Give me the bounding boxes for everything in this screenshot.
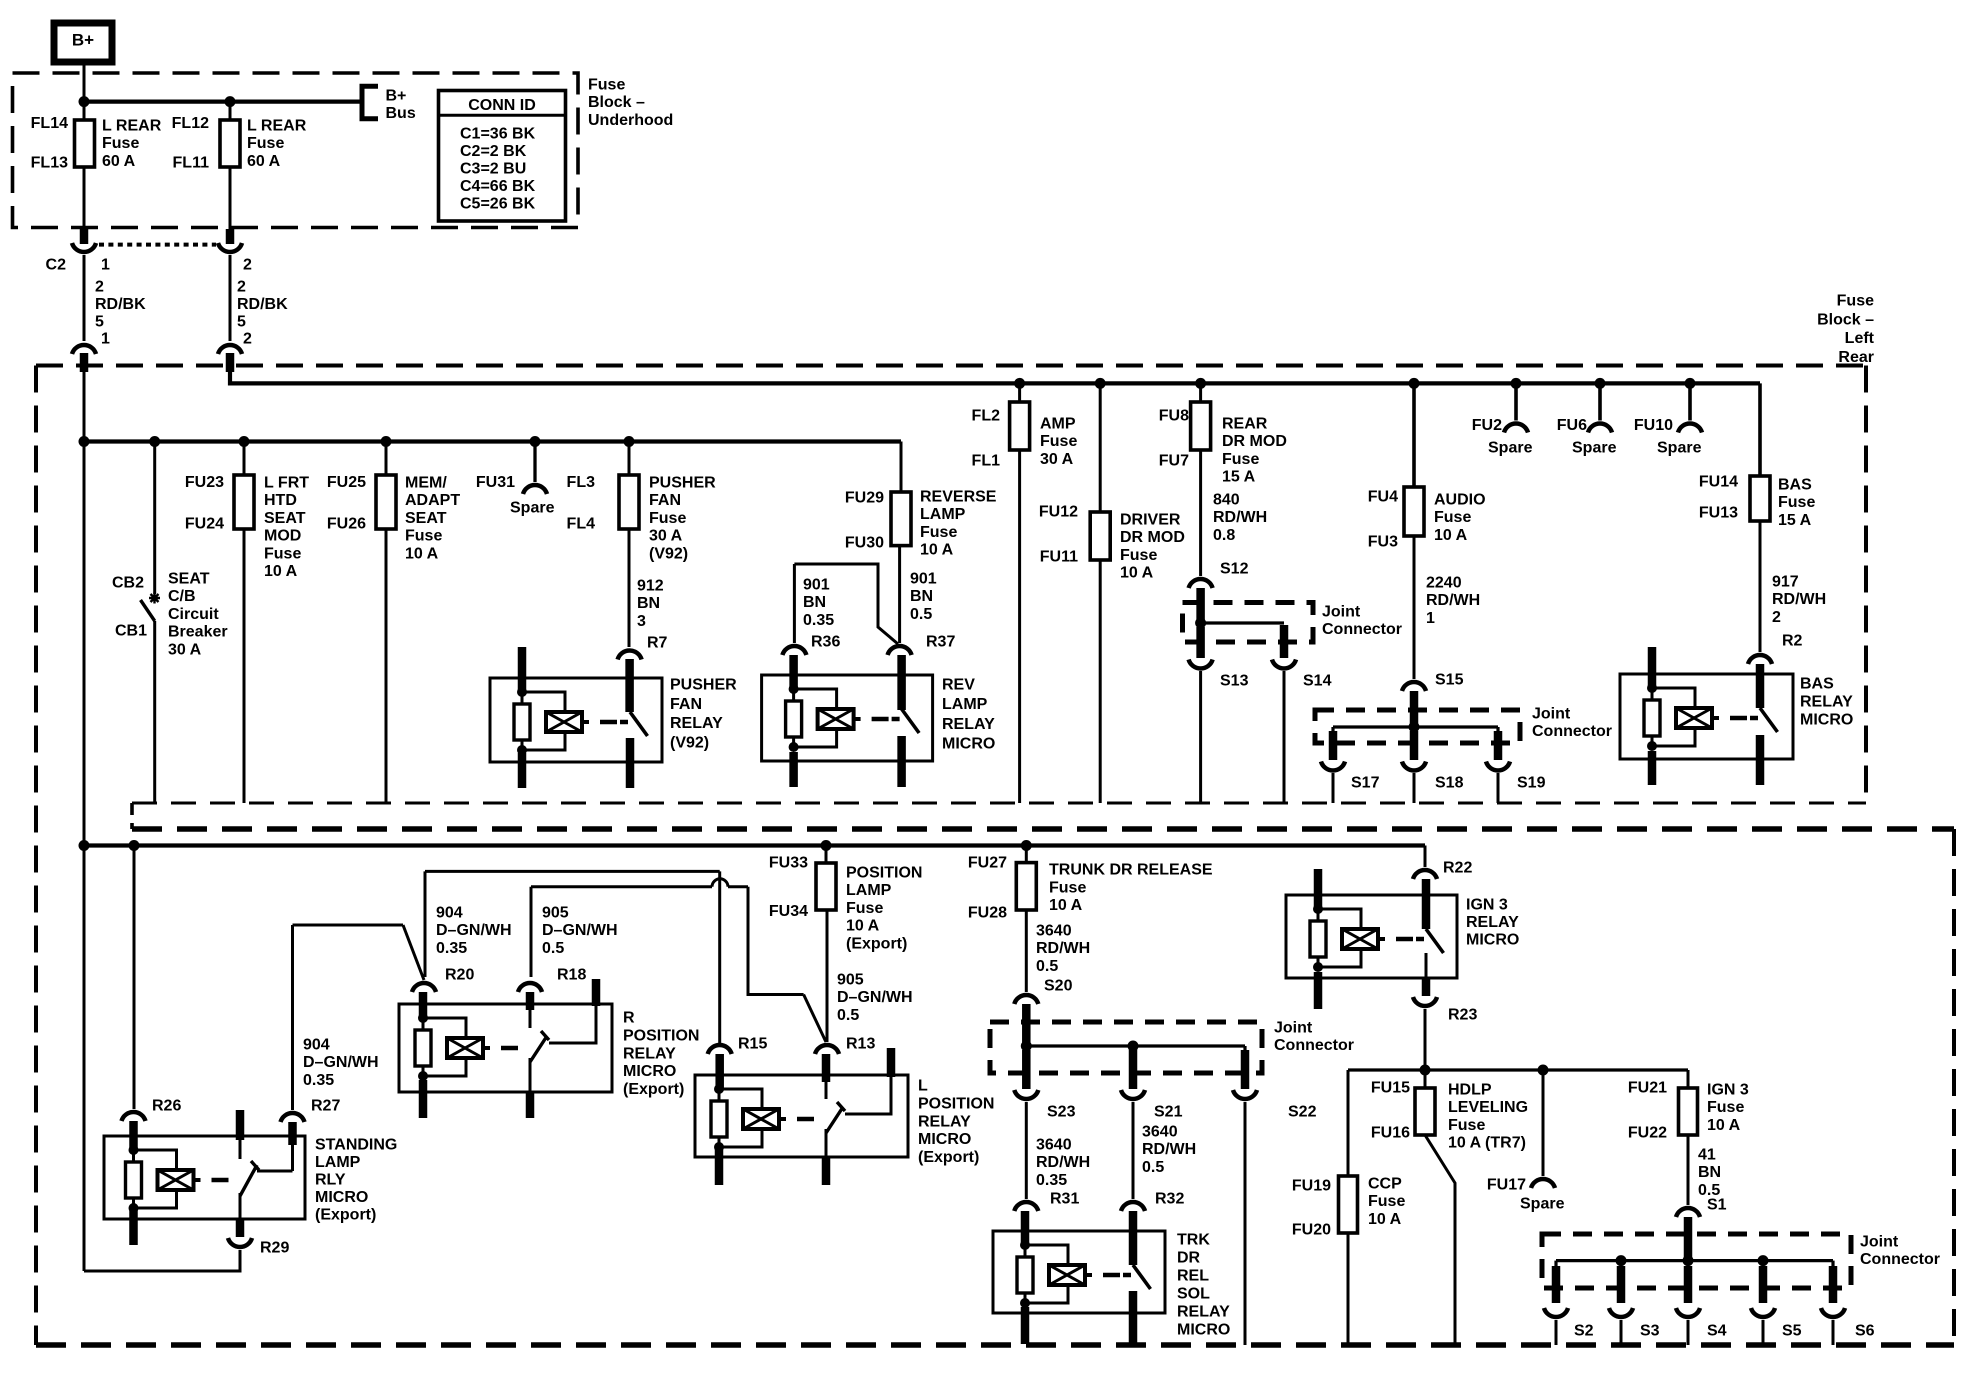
svg-text:R: R — [623, 1010, 635, 1027]
spare terminal FU17 — [1531, 1179, 1555, 1188]
connector S23 — [1014, 1090, 1038, 1099]
wire S6 down — [1832, 1320, 1835, 1345]
svg-text:1: 1 — [101, 331, 110, 348]
svg-text:B+: B+ — [72, 31, 94, 50]
connector R29 — [228, 1238, 252, 1247]
svg-text:3640: 3640 — [1036, 923, 1072, 940]
svg-text:904: 904 — [436, 905, 463, 922]
relay switch TRK DR REL SOL RELAY MICRO — [1123, 1273, 1131, 1278]
svg-text:RD/WH: RD/WH — [1213, 509, 1267, 526]
stub bas switch bottom — [1756, 735, 1765, 785]
spare terminal FU6 — [1588, 424, 1612, 433]
svg-text:RELAY: RELAY — [1177, 1304, 1230, 1321]
stub pusher coil top — [518, 647, 527, 692]
connector S2 — [1544, 1308, 1568, 1317]
svg-text:BAS: BAS — [1800, 676, 1834, 693]
B+ terminal box — [54, 23, 112, 62]
fuse FU8/FU7 REAR DR MOD 15A — [1191, 402, 1211, 450]
svg-text:C2: C2 — [46, 257, 67, 274]
svg-text:C1=36 BK: C1=36 BK — [460, 126, 536, 143]
svg-text:Fuse: Fuse — [1434, 509, 1471, 526]
svg-text:MICRO: MICRO — [1177, 1322, 1230, 1339]
svg-text:S4: S4 — [1707, 1323, 1727, 1340]
stub R POSITION open pin — [592, 979, 601, 1006]
svg-text:FU33: FU33 — [769, 855, 808, 872]
svg-text:10 A: 10 A — [1049, 897, 1083, 914]
svg-text:DR MOD: DR MOD — [1120, 529, 1185, 546]
svg-text:FU25: FU25 — [327, 474, 366, 491]
fuse FU21/FU22 IGN 3 10A — [1679, 1088, 1698, 1135]
svg-text:2: 2 — [243, 331, 252, 348]
svg-text:FAN: FAN — [670, 696, 702, 713]
junction x=1019.6 on upper feed — [1014, 378, 1025, 389]
connector C2 pin2 upper — [218, 243, 242, 252]
svg-text:IGN 3: IGN 3 — [1466, 897, 1508, 914]
svg-text:MICRO: MICRO — [918, 1131, 971, 1148]
connector R37 — [888, 646, 912, 655]
svg-text:Joint: Joint — [1860, 1234, 1899, 1251]
junction S23 in joint connector 3 — [1021, 1041, 1032, 1052]
fuse block underhood dashed border — [13, 73, 579, 228]
stub trk coil bottom — [1021, 1307, 1030, 1344]
svg-text:FU2: FU2 — [1472, 417, 1502, 434]
wire CB1 down — [153, 621, 156, 803]
svg-text:FU10: FU10 — [1634, 417, 1673, 434]
wire 840 RD/WH 0.8 — [1199, 450, 1202, 576]
svg-text:S15: S15 — [1435, 672, 1464, 689]
svg-text:R29: R29 — [260, 1240, 289, 1257]
wire joint connector 1 — [1201, 621, 1284, 624]
connector R2 — [1748, 655, 1772, 664]
stub S4 — [1684, 1266, 1693, 1303]
svg-text:FL12: FL12 — [172, 115, 209, 132]
stub R36 into relay — [789, 655, 798, 690]
stub r-pos coil bottom — [419, 1080, 428, 1118]
svg-text:RLY: RLY — [315, 1172, 346, 1189]
svg-text:FU16: FU16 — [1371, 1125, 1410, 1142]
svg-text:RD/WH: RD/WH — [1772, 591, 1826, 608]
svg-text:R18: R18 — [557, 967, 586, 984]
svg-text:B+: B+ — [386, 88, 407, 105]
svg-text:TRUNK DR RELEASE: TRUNK DR RELEASE — [1049, 862, 1213, 879]
junction x=1516 on upper feed — [1511, 378, 1522, 389]
junction x=84 on lower feed — [79, 436, 90, 447]
fuse FU14/FU13 BAS 15A — [1750, 476, 1770, 521]
svg-text:Spare: Spare — [510, 500, 555, 517]
svg-text:S3: S3 — [1640, 1323, 1660, 1340]
svg-text:R2: R2 — [1782, 633, 1803, 650]
stub R27 into relay — [288, 1122, 297, 1145]
stub S15 into joint connector — [1410, 691, 1419, 727]
wire branch 901 BN 0.35 — [794, 564, 898, 644]
lower feed bus — [84, 843, 1425, 847]
wire 3640 RD/WH 0.5 (R32) — [1132, 1102, 1135, 1199]
wire S18 down — [1413, 773, 1416, 803]
wire S19 down — [1497, 773, 1500, 803]
joint connector box S20/S23/S21/S22 — [990, 1022, 1262, 1073]
svg-text:901: 901 — [803, 577, 830, 594]
wire to fuse FU25 — [385, 442, 388, 476]
svg-text:Fuse: Fuse — [1049, 880, 1086, 897]
connector S4 — [1676, 1308, 1700, 1317]
svg-text:3640: 3640 — [1142, 1124, 1178, 1141]
stub R15 into relay — [715, 1054, 724, 1089]
svg-text:FU15: FU15 — [1371, 1080, 1410, 1097]
svg-text:ADAPT: ADAPT — [405, 492, 460, 509]
relay switch L POSITION (export type) — [825, 1082, 828, 1099]
svg-text:Connector: Connector — [1274, 1037, 1354, 1054]
svg-text:DR MOD: DR MOD — [1222, 433, 1287, 450]
stub bas coil bottom — [1648, 751, 1657, 785]
svg-text:C4=66 BK: C4=66 BK — [460, 178, 536, 195]
feed bus lower — [84, 439, 901, 443]
junction x=1688 in joint connector 4 — [1683, 1255, 1694, 1266]
connector R31 — [1014, 1202, 1038, 1211]
svg-text:2: 2 — [95, 279, 104, 296]
connector R18 — [518, 983, 542, 992]
svg-text:FU11: FU11 — [1040, 549, 1078, 566]
svg-text:FU4: FU4 — [1368, 489, 1398, 506]
wire S17 down — [1332, 773, 1335, 803]
svg-text:10 A: 10 A — [1120, 565, 1154, 582]
svg-text:Bus: Bus — [386, 105, 416, 122]
svg-text:FL3: FL3 — [567, 474, 596, 491]
svg-text:S13: S13 — [1220, 673, 1249, 690]
wire C2 pin2 — [229, 255, 232, 341]
junction HDLP tap — [1420, 1065, 1431, 1076]
svg-text:BN: BN — [637, 595, 660, 612]
connector R13 — [815, 1045, 839, 1054]
stub R13 into relay — [822, 1054, 831, 1082]
relay switch PUSHER FAN RELAY (V92) — [620, 720, 628, 725]
connector R32 — [1121, 1202, 1145, 1211]
svg-text:Connector: Connector — [1860, 1251, 1940, 1268]
svg-text:FL4: FL4 — [567, 516, 596, 533]
svg-text:PUSHER: PUSHER — [649, 475, 716, 492]
svg-text:Fuse: Fuse — [1778, 494, 1815, 511]
svg-text:R32: R32 — [1155, 1191, 1184, 1208]
svg-text:LAMP: LAMP — [846, 882, 892, 899]
svg-text:Fuse: Fuse — [1448, 1117, 1485, 1134]
svg-text:Joint: Joint — [1532, 706, 1571, 723]
relay box TRK DR REL SOL RELAY MICRO — [993, 1231, 1165, 1313]
wire 904 to R27 branch — [293, 924, 404, 927]
wire to R15 — [718, 871, 721, 1043]
wire FU16 down diagonal — [1425, 1135, 1455, 1345]
svg-text:Breaker: Breaker — [168, 624, 228, 641]
wire S13 down — [1199, 671, 1202, 803]
wire left rail to standing lamp loop — [83, 846, 86, 1272]
junction x=1200.6 on upper feed — [1195, 378, 1206, 389]
svg-text:Fuse: Fuse — [588, 77, 625, 94]
svg-text:FL14: FL14 — [31, 115, 68, 132]
wire 905 to R13 branch — [748, 887, 804, 995]
wire to fuse FL2 — [1018, 383, 1021, 402]
svg-text:912: 912 — [637, 578, 664, 595]
svg-text:Fuse: Fuse — [846, 900, 883, 917]
svg-text:905: 905 — [542, 905, 569, 922]
svg-text:RD/WH: RD/WH — [1426, 592, 1480, 609]
svg-text:MOD: MOD — [264, 528, 301, 545]
wire FL13 down — [83, 167, 86, 229]
svg-text:BN: BN — [910, 588, 933, 605]
stub ign3 coil top — [1314, 869, 1323, 909]
junction x=84 on lower bus — [79, 840, 90, 851]
wire to fuse FU19 — [1347, 1070, 1350, 1176]
svg-text:FU31: FU31 — [476, 474, 515, 491]
stub R32 into relay — [1129, 1211, 1138, 1265]
stub R31 into relay — [1021, 1211, 1030, 1245]
svg-text:MICRO: MICRO — [1800, 712, 1853, 729]
svg-text:R23: R23 — [1448, 1007, 1477, 1024]
stub R7 into relay — [625, 659, 634, 712]
svg-text:60 A: 60 A — [102, 153, 136, 170]
junction FU17 tap — [1538, 1065, 1549, 1076]
stub R37 into relay — [897, 655, 906, 710]
svg-text:S2: S2 — [1574, 1323, 1594, 1340]
svg-text:Fuse: Fuse — [405, 528, 442, 545]
svg-text:PUSHER: PUSHER — [670, 677, 737, 694]
svg-text:RD/WH: RD/WH — [1142, 1141, 1196, 1158]
svg-text:D–GN/WH: D–GN/WH — [303, 1054, 379, 1071]
svg-text:C5=26 BK: C5=26 BK — [460, 196, 536, 213]
wire to spare FU31 — [533, 442, 536, 483]
stub R26 into relay — [129, 1121, 138, 1150]
fuse FL3/FL4 PUSHER FAN 30A — [619, 475, 639, 529]
stub S19 — [1494, 731, 1503, 760]
junction x=535 on lower feed — [530, 436, 541, 447]
junction S21 in joint connector 3 — [1128, 1041, 1139, 1052]
svg-text:FAN: FAN — [649, 492, 681, 509]
svg-text:R37: R37 — [926, 634, 955, 651]
wire 3640 RD/WH 0.35 — [1025, 1102, 1028, 1199]
svg-text:Block –: Block – — [588, 94, 645, 111]
svg-text:840: 840 — [1213, 492, 1240, 509]
svg-text:905: 905 — [837, 972, 864, 989]
svg-text:2240: 2240 — [1426, 575, 1462, 592]
wire 3640 RD/WH 0.5 (S20) — [1025, 910, 1028, 992]
svg-text:POSITION: POSITION — [918, 1095, 994, 1112]
stub R2 into relay — [1756, 664, 1765, 708]
svg-text:Fuse: Fuse — [1040, 433, 1077, 450]
connector C2 pin2 lower — [218, 345, 242, 354]
svg-text:2: 2 — [237, 279, 246, 296]
wire FU34 to R13 — [826, 910, 829, 1042]
svg-text:S1: S1 — [1707, 1197, 1727, 1214]
svg-text:FU14: FU14 — [1699, 474, 1738, 491]
wire C2-1 into block — [83, 372, 86, 442]
stub standing coil bottom — [129, 1210, 138, 1245]
svg-text:Fuse: Fuse — [264, 545, 301, 562]
svg-text:RELAY: RELAY — [1466, 914, 1519, 931]
svg-text:Fuse: Fuse — [1707, 1099, 1744, 1116]
joint connector box S12/S13/S14 — [1183, 603, 1314, 643]
relay coil BAS RELAY MICRO — [1647, 683, 1657, 693]
stub S6 — [1829, 1266, 1838, 1303]
svg-text:FU30: FU30 — [845, 535, 884, 552]
connector C2 pin1 lower — [72, 345, 96, 354]
svg-text:S22: S22 — [1288, 1104, 1317, 1121]
svg-text:STANDING: STANDING — [315, 1137, 397, 1154]
spare terminal FU2 — [1504, 424, 1528, 433]
connector S18 — [1402, 762, 1426, 771]
svg-text:RELAY: RELAY — [1800, 694, 1853, 711]
svg-text:Underhood: Underhood — [588, 112, 673, 129]
svg-text:2: 2 — [243, 257, 252, 274]
svg-text:1: 1 — [1426, 610, 1435, 627]
feed line upper — [230, 372, 1760, 383]
svg-text:L FRT: L FRT — [264, 475, 309, 492]
wire to R18 — [530, 887, 533, 977]
wire FU20 down — [1347, 1233, 1350, 1345]
svg-text:FU3: FU3 — [1368, 534, 1398, 551]
svg-text:10 A: 10 A — [920, 542, 954, 559]
svg-text:3: 3 — [637, 613, 646, 630]
wire FL11 down — [229, 167, 232, 229]
svg-text:CB1: CB1 — [115, 623, 147, 640]
stub C2 pin1 top — [80, 229, 89, 244]
svg-text:FU20: FU20 — [1292, 1222, 1331, 1239]
svg-text:0.35: 0.35 — [803, 612, 834, 629]
svg-text:RELAY: RELAY — [670, 715, 723, 732]
svg-text:MICRO: MICRO — [1466, 932, 1519, 949]
svg-text:D–GN/WH: D–GN/WH — [837, 989, 913, 1006]
svg-text:FU23: FU23 — [185, 474, 224, 491]
fuse FU25/FU26 MEM/ADAPT SEAT 10A — [376, 475, 396, 529]
stub R20 into relay — [419, 992, 428, 1018]
svg-text:RD/WH: RD/WH — [1036, 940, 1090, 957]
wire S4 down — [1687, 1320, 1690, 1345]
connector R22 — [1413, 870, 1437, 879]
svg-text:SEAT: SEAT — [405, 510, 447, 527]
connector S17 — [1321, 762, 1345, 771]
wire to fuse FU14 — [1758, 383, 1762, 476]
wire to fuse FU4 — [1412, 383, 1416, 487]
svg-text:R27: R27 — [311, 1098, 340, 1115]
stub r-pos switch bottom — [526, 1092, 535, 1118]
stub S12 into joint connector — [1196, 588, 1205, 623]
svg-text:10 A: 10 A — [264, 563, 298, 580]
svg-text:0.35: 0.35 — [1036, 1172, 1067, 1189]
svg-text:0.35: 0.35 — [436, 940, 467, 957]
svg-text:FL2: FL2 — [972, 408, 1001, 425]
stub l-pos coil bottom — [715, 1149, 724, 1185]
relay coil PUSHER FAN RELAY (V92) — [517, 687, 527, 697]
svg-text:FL1: FL1 — [972, 453, 1001, 470]
svg-text:904: 904 — [303, 1037, 330, 1054]
wire S5 down — [1762, 1320, 1765, 1345]
fuse FU4/FU3 AUDIO 10A — [1404, 487, 1424, 536]
wire to R20 — [424, 871, 427, 977]
svg-text:FU6: FU6 — [1557, 417, 1587, 434]
svg-text:REAR: REAR — [1222, 416, 1268, 433]
svg-text:MICRO: MICRO — [942, 736, 995, 753]
svg-text:S23: S23 — [1047, 1104, 1076, 1121]
stub S20 into joint connector — [1022, 1004, 1031, 1046]
svg-text:FU21: FU21 — [1628, 1080, 1667, 1097]
svg-text:SOL: SOL — [1177, 1286, 1210, 1303]
junction x=134 on lower bus — [129, 840, 140, 851]
relay coil IGN 3 RELAY MICRO — [1313, 904, 1323, 914]
junction x=1026.3 on lower bus — [1021, 840, 1032, 851]
svg-text:10 A: 10 A — [1707, 1117, 1741, 1134]
connector S3 — [1609, 1308, 1633, 1317]
svg-text:Joint: Joint — [1274, 1020, 1313, 1037]
relay box L POSITION RELAY MICRO (Export) — [695, 1075, 908, 1157]
svg-text:10 A: 10 A — [405, 545, 439, 562]
svg-text:R15: R15 — [738, 1036, 767, 1053]
svg-text:S12: S12 — [1220, 561, 1249, 578]
svg-text:FU19: FU19 — [1292, 1178, 1331, 1195]
connector S13 — [1189, 660, 1213, 669]
svg-text:(Export): (Export) — [846, 935, 907, 952]
svg-text:FU17: FU17 — [1487, 1177, 1526, 1194]
relay switch BAS RELAY MICRO — [1750, 716, 1758, 721]
wire to spare FU6 — [1598, 383, 1602, 420]
svg-text:Block –: Block – — [1817, 311, 1874, 328]
connector S1 — [1676, 1208, 1700, 1217]
svg-text:(V92): (V92) — [649, 545, 688, 562]
svg-text:DR: DR — [1177, 1250, 1201, 1267]
junction x=1414 on upper feed — [1409, 378, 1420, 389]
stub L POSITION open pin — [887, 1048, 896, 1077]
svg-text:10 A: 10 A — [846, 918, 880, 935]
relay box BAS RELAY MICRO — [1620, 674, 1793, 759]
svg-text:RD/BK: RD/BK — [237, 296, 288, 313]
svg-text:LAMP: LAMP — [315, 1154, 361, 1171]
wire 2240 RD/WH 1 — [1413, 536, 1416, 679]
fuse FU33/FU34 POSITION LAMP 10A — [816, 863, 836, 910]
svg-text:30 A: 30 A — [649, 528, 683, 545]
spare terminal FU10 — [1678, 423, 1702, 432]
svg-text:FU12: FU12 — [1039, 504, 1078, 521]
CONN ID table — [439, 91, 566, 222]
connector S21 — [1121, 1090, 1145, 1099]
svg-text:Spare: Spare — [1488, 440, 1533, 457]
svg-text:S19: S19 — [1517, 775, 1546, 792]
svg-text:REV: REV — [942, 677, 975, 694]
svg-text:S21: S21 — [1154, 1104, 1183, 1121]
svg-text:0.35: 0.35 — [303, 1072, 334, 1089]
fuse block left rear dashed border — [36, 364, 1866, 368]
connector S22 — [1233, 1090, 1257, 1099]
svg-text:FU22: FU22 — [1628, 1125, 1667, 1142]
svg-text:REVERSE: REVERSE — [920, 489, 997, 506]
svg-text:CB2: CB2 — [112, 575, 144, 592]
svg-text:L: L — [918, 1078, 928, 1095]
stub bas coil top — [1648, 647, 1657, 688]
stub S1 into joint connector — [1684, 1217, 1693, 1261]
wire to spare FU2 — [1514, 383, 1518, 420]
wire to circuit breaker CB2 — [153, 442, 156, 595]
wire S14 down — [1283, 671, 1286, 803]
svg-text:(Export): (Export) — [315, 1207, 376, 1224]
circuit breaker CB2/CB1 SEAT C/B — [149, 593, 160, 604]
wire S22 down — [1244, 1102, 1247, 1345]
junction in joint connector 2 — [1409, 722, 1420, 733]
svg-text:TRK: TRK — [1177, 1232, 1210, 1249]
svg-text:2: 2 — [1772, 609, 1781, 626]
relay coil L POSITION — [714, 1084, 724, 1094]
diagonal into R13 — [804, 995, 826, 1043]
svg-text:MICRO: MICRO — [315, 1189, 368, 1206]
svg-text:Spare: Spare — [1572, 440, 1617, 457]
connector S15 — [1402, 682, 1426, 691]
stub rev coil bottom — [789, 752, 798, 787]
wire to R26 — [133, 846, 136, 1110]
svg-text:Connector: Connector — [1532, 723, 1612, 740]
svg-text:IGN 3: IGN 3 — [1707, 1082, 1749, 1099]
